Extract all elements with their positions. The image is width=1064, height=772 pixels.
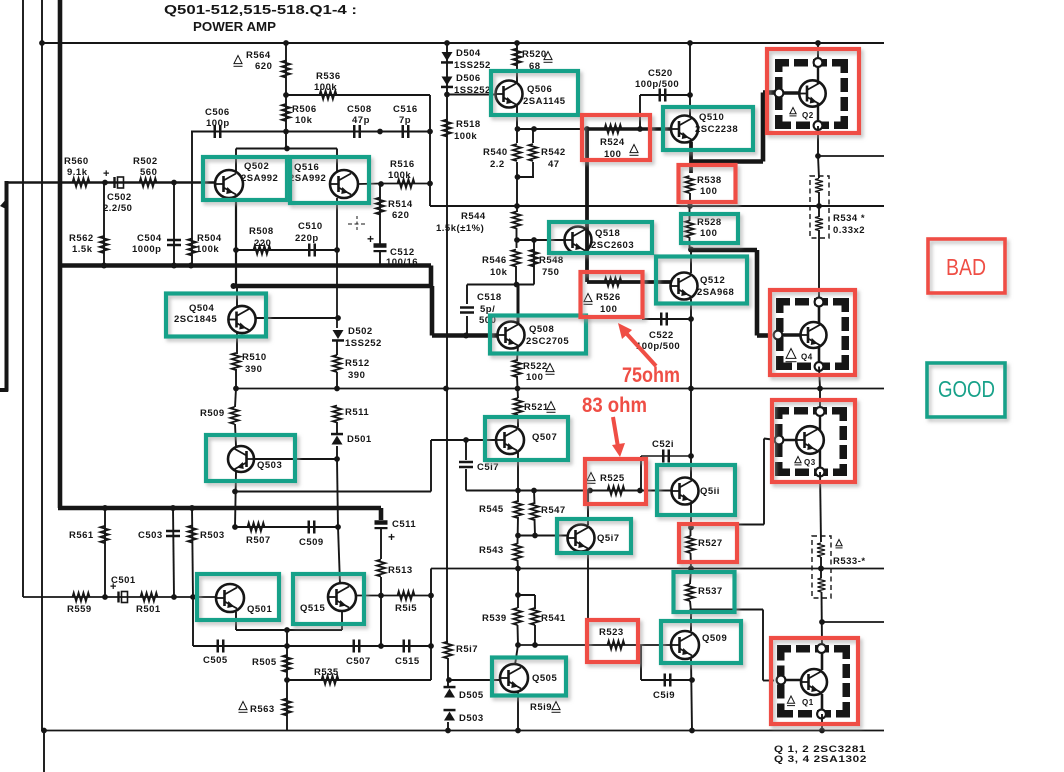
wire Q503 base line (y459)	[255, 458, 337, 460]
legend BAD box	[928, 239, 1005, 293]
wire lower rail left drop (x431)	[430, 569, 432, 596]
svg-text:1SS252: 1SS252	[454, 60, 491, 71]
svg-text:R542: R542	[541, 147, 566, 158]
wire R539 bottom stub	[517, 625, 520, 645]
terminal Q4 top	[815, 298, 824, 307]
wire input thick stub bottom-left	[0, 388, 8, 392]
wire thick bus lower (y286)	[233, 284, 432, 289]
label R560	[64, 156, 89, 178]
resistor R520	[513, 49, 521, 66]
wire Q512 emitter column	[690, 299, 692, 389]
capacitor C519	[665, 674, 671, 687]
wire input line (y182.5)	[5, 181, 216, 183]
svg-text:C510: C510	[298, 221, 323, 232]
svg-text:100: 100	[700, 228, 717, 239]
label R506	[292, 104, 317, 126]
wire R538 to negative rail	[689, 193, 691, 206]
wire Q503 emitter column	[235, 472, 236, 527]
svg-text:R533-*: R533-*	[833, 556, 866, 567]
resistor R534a	[815, 179, 823, 193]
wire R526 thick line (y282)	[587, 280, 671, 284]
wire Q508 emitter to R522	[517, 346, 518, 361]
svg-text:R507: R507	[246, 535, 271, 546]
terminal Q3 base	[775, 436, 784, 445]
wire R540/R542 bottom link (y177)	[517, 176, 534, 178]
wire thick to Q4 (y250)	[691, 248, 757, 253]
svg-text:Q4: Q4	[801, 353, 813, 362]
legend GOOD box	[927, 363, 1005, 417]
wire thick feedback drop (x587)	[585, 129, 589, 282]
wire Q516 collector column	[336, 198, 338, 328]
resistor R525	[608, 486, 625, 494]
dashed box R534	[810, 176, 829, 238]
warn mark near R519	[552, 702, 561, 713]
svg-text:Q5ii: Q5ii	[700, 486, 720, 497]
node bus/C503	[170, 505, 176, 511]
wire Q2 inner emitter lead	[817, 103, 819, 126]
wire Q506 base (y94.5)	[447, 94, 496, 96]
capacitor C516	[403, 125, 409, 138]
resistor R509	[230, 407, 238, 424]
svg-text:R520: R520	[522, 49, 547, 60]
overlay good box Q506	[491, 71, 578, 115]
resistor R513	[377, 560, 385, 577]
wire R541 bottom stub	[534, 625, 536, 645]
node bottom rail/Q505	[515, 728, 521, 734]
node R524 left junction	[584, 126, 590, 132]
node top rail / diode column	[444, 40, 450, 46]
wire left rail A (x23)	[22, 0, 24, 597]
svg-text:R525: R525	[600, 473, 625, 484]
wire compensation line (y131.5)	[191, 131, 430, 133]
wire input line bottom (y597)	[23, 596, 216, 598]
power transistor Q1 outline	[777, 645, 850, 718]
wire thick to Q508 base (y335.5)	[432, 333, 498, 338]
wire C518 bottom stub	[466, 316, 468, 336]
node Q2 emitter junction	[815, 153, 821, 159]
node C521 drop junction	[637, 488, 643, 494]
resistor R508	[254, 246, 271, 254]
label C504	[132, 233, 162, 255]
wire R535 line (y680)	[287, 679, 431, 681]
warn mark near R520	[544, 52, 553, 63]
wire R542 bottom stub	[532, 162, 534, 177]
node top rail / R564 column	[283, 40, 289, 46]
transistor Q3 (2SA1302)	[796, 426, 824, 454]
node C502/C504 junction	[171, 180, 177, 186]
wire R540/R542 top link (y129)	[517, 128, 534, 130]
capacitor C506	[215, 125, 221, 138]
node D502 top junction	[335, 315, 341, 321]
node R539 bottom junction	[515, 642, 521, 648]
terminal Q1 base	[777, 676, 786, 685]
annotation arrow to R525	[612, 417, 625, 457]
resistor R542	[529, 144, 537, 161]
transistor Q510	[671, 116, 698, 143]
node R525 left junction	[587, 488, 593, 494]
svg-text:Q505: Q505	[532, 673, 557, 684]
wire R543/R539 link (x518)	[517, 569, 519, 609]
label R520	[522, 49, 547, 72]
svg-text:2.2: 2.2	[490, 159, 505, 170]
label R542	[541, 147, 566, 170]
capacitor C509	[309, 521, 315, 534]
resistor R523	[608, 641, 625, 649]
label R562	[69, 233, 94, 255]
label R504	[196, 233, 222, 255]
svg-text:R524: R524	[600, 137, 625, 148]
wire R537 top stub	[690, 569, 691, 585]
wire R534 link	[818, 192, 820, 217]
node R508 left junction	[233, 247, 239, 253]
label R510	[242, 352, 267, 375]
svg-text:Q518: Q518	[595, 228, 620, 239]
svg-text:560: 560	[140, 167, 157, 178]
wire thick riser to Q2 (x763)	[761, 93, 766, 162]
wire C505 line (y646)	[193, 645, 287, 647]
resistor R502	[140, 178, 157, 186]
warn mark near R563	[239, 702, 248, 713]
svg-text:C508: C508	[347, 104, 372, 115]
svg-text:R509: R509	[200, 408, 225, 419]
resistor R544	[512, 212, 520, 229]
wire Q505 base line (y680)	[449, 679, 500, 681]
overlay bad box Q3	[772, 400, 855, 482]
svg-text:R522: R522	[523, 361, 548, 372]
node bottom rail/rail B	[41, 728, 47, 734]
capacitor C507	[354, 640, 360, 653]
svg-text:R541: R541	[541, 613, 566, 624]
overlay bad box Q2	[767, 49, 859, 133]
wire Q515 to R515 (y595.5)	[356, 595, 431, 597]
wire C518 link line (y284.5)	[467, 284, 534, 286]
wire R508/C510 line (y250)	[236, 249, 337, 251]
wire Q515 emitter stub	[341, 611, 343, 630]
wire Q505 collector stub	[515, 645, 518, 665]
label R512	[345, 358, 370, 381]
svg-text:750: 750	[542, 267, 559, 278]
svg-text:D503: D503	[459, 713, 484, 724]
node R516 right junction	[427, 181, 433, 187]
resistor R541	[531, 608, 539, 625]
svg-text:620: 620	[392, 210, 409, 221]
svg-text:Q515: Q515	[300, 603, 325, 614]
svg-text:R508: R508	[249, 226, 274, 237]
svg-text:1.5k: 1.5k	[72, 244, 93, 255]
wire C521 left drop (x641)	[640, 456, 642, 491]
diode D504	[441, 52, 453, 64]
warn mark near R525	[587, 473, 596, 484]
transistor Q504	[228, 306, 255, 333]
svg-text:R5i5: R5i5	[395, 603, 417, 614]
overlay good box Q516	[290, 157, 369, 203]
svg-text:2SA968: 2SA968	[697, 287, 734, 298]
node bus/R504	[188, 263, 194, 269]
resistor R538	[685, 176, 693, 193]
wire R540 bottom to R544	[516, 162, 518, 212]
node C516 right junction	[427, 129, 433, 135]
wire R534 to Q4	[818, 230, 820, 302]
power transistor Q3 outline	[775, 407, 847, 476]
node C506 junction	[283, 129, 289, 135]
power transistor Q4 outline	[776, 298, 849, 370]
svg-text:100k: 100k	[388, 170, 411, 181]
warn mark near Q2	[790, 108, 797, 116]
terminal Q1 top	[817, 644, 826, 653]
node top rail / Q510 column	[687, 40, 693, 46]
svg-text:100k: 100k	[454, 131, 477, 142]
node top rail / Q2 column	[815, 40, 821, 46]
svg-text:R504: R504	[197, 233, 222, 244]
wire R507/C509 line (y527)	[235, 526, 338, 528]
svg-text:R547: R547	[541, 505, 566, 516]
svg-text:R506: R506	[292, 104, 317, 115]
svg-text:Q 3, 4 2SA1302: Q 3, 4 2SA1302	[774, 754, 867, 765]
svg-text:390: 390	[348, 370, 365, 381]
node C507 left junction	[378, 643, 384, 649]
svg-text:Q506: Q506	[527, 84, 552, 95]
transistor Q508	[498, 322, 525, 349]
node R515/R513 junction	[378, 593, 384, 599]
svg-text:2SA992: 2SA992	[241, 173, 278, 184]
label D502	[345, 326, 382, 349]
terminal Q4 base	[774, 331, 783, 340]
label C506	[205, 107, 230, 129]
svg-text:+: +	[388, 530, 395, 544]
power transistor Q2 outline	[775, 59, 848, 129]
wire Q512 collector stub	[690, 250, 692, 273]
node top rail / R520 column	[514, 40, 520, 46]
svg-text:C520: C520	[648, 68, 673, 79]
svg-text:R545: R545	[479, 504, 504, 515]
node C519 junction	[689, 677, 695, 683]
transistor Q518	[565, 227, 592, 254]
resistor R503	[188, 526, 196, 543]
svg-text:C501: C501	[111, 575, 136, 586]
wire R510 to mid rail	[235, 369, 237, 389]
svg-text:R538: R538	[697, 175, 722, 186]
diode D501	[331, 433, 343, 445]
resistor R518	[443, 120, 451, 137]
svg-text:+: +	[367, 232, 374, 246]
node R548 top	[531, 237, 537, 243]
resistor R505	[283, 655, 291, 672]
label R514	[388, 199, 413, 221]
wire R548 column	[533, 240, 535, 285]
label R548	[539, 255, 564, 278]
resistor R507	[248, 523, 265, 531]
overlay good box R528	[681, 214, 738, 243]
wire Q2 emitter drop	[817, 126, 819, 156]
node Q1 feed junction	[819, 619, 825, 625]
wire Q1 base lead	[781, 679, 802, 681]
wire thick into Q2 base (y92.5)	[763, 90, 776, 95]
node bottom rail/D503	[445, 728, 451, 734]
wire R505 column (x287)	[286, 630, 288, 731]
node C505 junction	[284, 643, 290, 649]
wire C505 column (x193)	[192, 597, 194, 646]
svg-text:Q503: Q503	[257, 460, 282, 471]
svg-text:R511: R511	[345, 407, 369, 418]
wire emitter rail (y148.5)	[236, 148, 337, 150]
node mid rail/R510	[233, 386, 239, 392]
node R544 top on negative rail	[514, 203, 520, 209]
svg-text:C506: C506	[205, 107, 230, 118]
label R516	[388, 159, 415, 181]
wire top rail (y43)	[42, 42, 884, 44]
overlay bad box R538	[679, 165, 736, 202]
overlay good box Q509	[661, 621, 741, 663]
node bus/R561	[102, 505, 108, 511]
node bottom rail/Q1	[819, 728, 825, 734]
node R537 bottom junction	[689, 609, 695, 615]
wire Q511 collector column	[690, 389, 692, 479]
svg-text:2SC2238: 2SC2238	[695, 124, 738, 135]
resistor R545	[514, 501, 522, 518]
wire Q516 emitter stub	[336, 149, 338, 173]
wire R542 top stub	[532, 129, 534, 143]
label Q512	[697, 275, 734, 298]
wire R523 line (y645)	[518, 644, 641, 646]
overlay good box Q504	[166, 294, 266, 337]
node C520/Q510 collector junction	[687, 92, 693, 98]
transistor Q501	[216, 584, 244, 612]
capacitor C522	[661, 313, 667, 326]
wire R537 bottom stub	[690, 601, 691, 612]
node C515 right junction	[428, 643, 434, 649]
wire Q508 collector (x518)	[517, 285, 520, 325]
svg-text:1.5k(±1%): 1.5k(±1%)	[436, 223, 484, 234]
wire C520 left drop (x640)	[639, 95, 641, 129]
wire emitter link (y630)	[236, 629, 342, 631]
wire D501 to Q503 base node	[336, 446, 338, 459]
svg-text:Q516: Q516	[294, 162, 319, 173]
wire R509 to Q503	[235, 424, 236, 446]
wire R564 column	[285, 43, 287, 149]
wire R527 top stub	[690, 528, 692, 537]
node mid rail/Q3 column	[817, 386, 823, 392]
node C508/C516 junction	[377, 129, 383, 135]
wire Q1 emitter drop	[821, 714, 823, 731]
svg-text:2SC2705: 2SC2705	[526, 336, 569, 347]
resistor R524	[605, 125, 622, 133]
svg-text:R505: R505	[252, 657, 277, 668]
node bottom rail/Q509	[689, 728, 695, 734]
crosshair alignment mark	[348, 216, 366, 232]
svg-text:R503: R503	[200, 530, 225, 541]
capacitor C521	[663, 450, 669, 463]
svg-text:R564: R564	[246, 50, 271, 61]
node C518 bottom junction	[463, 333, 469, 339]
node negative rail/R534	[816, 203, 822, 209]
diode D506	[441, 77, 453, 89]
resistor R560	[73, 178, 90, 186]
svg-text:R559: R559	[67, 604, 92, 615]
wire Q504 collector stub	[236, 287, 238, 308]
terminal Q2 base	[775, 89, 784, 98]
svg-text:R563: R563	[250, 704, 275, 715]
wire R524 thick line (y129)	[587, 127, 671, 130]
capacitor C505	[218, 640, 224, 653]
wire D503 to bottom rail	[447, 722, 449, 731]
resistor R522	[513, 360, 521, 377]
warn mark near R521	[547, 402, 556, 413]
node top rail / rail B	[39, 40, 45, 46]
transistor Q509	[671, 631, 699, 659]
node mid rail/Q511 column	[688, 386, 694, 392]
svg-text:Q504: Q504	[189, 303, 214, 314]
svg-text:C518: C518	[477, 292, 502, 303]
wire bus link (x431)	[429, 266, 434, 287]
wire Q509 collector stub	[690, 612, 692, 632]
wire Q515 collector column	[338, 527, 340, 584]
svg-text:R510: R510	[242, 352, 267, 363]
resistor R537	[686, 584, 694, 601]
svg-text:0.33x2: 0.33x2	[833, 225, 865, 236]
transistor Q512	[671, 273, 698, 300]
svg-text:R514: R514	[388, 199, 413, 210]
node C517 top junction	[463, 437, 469, 443]
node lower rail/R543	[515, 566, 521, 572]
wire C521 line (y456)	[641, 455, 691, 457]
wire thick bus bottom (y508)	[58, 506, 381, 511]
svg-text:R528: R528	[697, 217, 722, 228]
svg-text:R5i9: R5i9	[530, 702, 552, 713]
capacitor C510	[309, 244, 315, 257]
resistor R548	[530, 250, 538, 267]
node D505 top junction	[446, 677, 452, 683]
resistor R527	[686, 536, 694, 553]
resistor R546	[512, 250, 520, 267]
node R527 top junction	[688, 525, 694, 531]
label C512	[386, 247, 418, 268]
wire R523 to Q509 base	[641, 644, 671, 646]
svg-text:BAD: BAD	[946, 254, 986, 280]
svg-text:Q509: Q509	[702, 633, 727, 644]
warn mark near R564	[234, 56, 243, 67]
label C516	[393, 104, 418, 126]
resistor R536	[320, 91, 337, 99]
svg-text:100p/500: 100p/500	[635, 79, 679, 90]
label C522	[636, 330, 680, 352]
node C510 right junction	[334, 247, 340, 253]
svg-text:R534 *: R534 *	[833, 213, 865, 224]
wire R543 top stub	[517, 517, 520, 544]
wire left rail B (x42)	[41, 0, 43, 731]
node Q518 base junction (y240)	[514, 237, 520, 243]
svg-text:R560: R560	[64, 156, 89, 167]
wire R561 column	[104, 508, 106, 597]
label Q506	[523, 84, 566, 107]
wire R547 column	[533, 491, 536, 505]
wire Q517 collector (x588)	[587, 491, 589, 526]
wire R516 line (y183.5)	[381, 183, 430, 185]
svg-text:R521: R521	[524, 402, 549, 413]
wire R533 to Q1	[821, 592, 824, 645]
wire C511 to R513	[380, 529, 382, 559]
svg-text:C515: C515	[395, 656, 420, 667]
svg-text:C5i7: C5i7	[477, 462, 499, 473]
capacitor C512	[374, 246, 387, 252]
transistor Q503	[228, 446, 254, 472]
node R535 junction	[284, 677, 290, 683]
svg-text:C522: C522	[649, 330, 674, 341]
svg-text:220p: 220p	[295, 233, 319, 244]
svg-text:R526: R526	[596, 292, 621, 303]
svg-text:Q507: Q507	[532, 432, 557, 443]
node R559/R561 junction	[102, 594, 108, 600]
wire Q511 emitter stub	[690, 504, 692, 528]
